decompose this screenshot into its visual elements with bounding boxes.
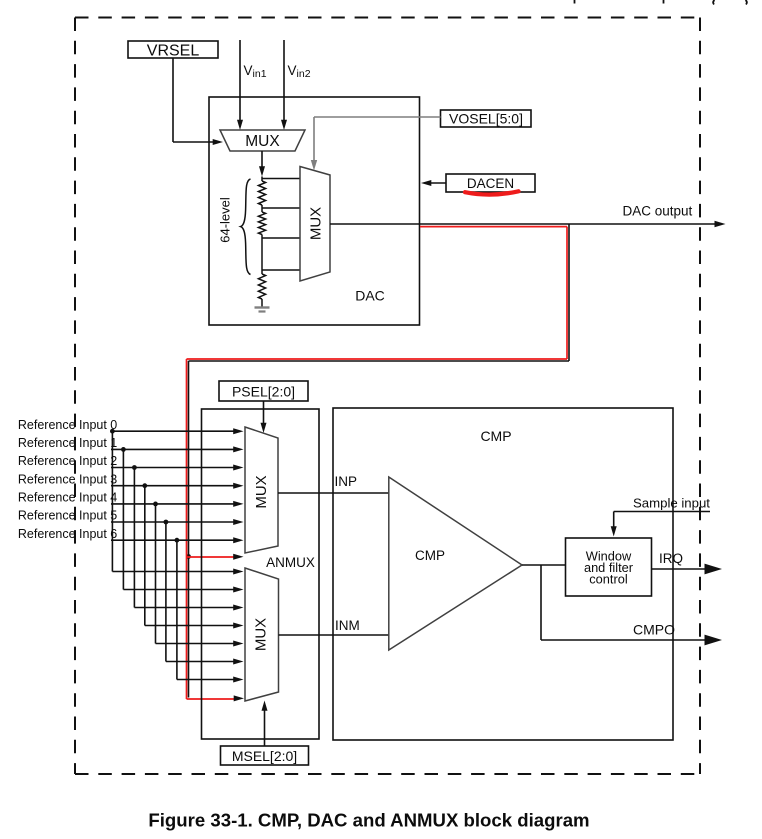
svg-text:MSEL[2:0]: MSEL[2:0]	[232, 748, 297, 764]
svg-text:CMP: CMP	[480, 428, 511, 444]
svg-text:Figure 33-1. CMP, DAC and ANMU: Figure 33-1. CMP, DAC and ANMUX block di…	[148, 810, 589, 831]
svg-text:Reference Input 4: Reference Input 4	[18, 491, 117, 505]
svg-text:VOSEL[5:0]: VOSEL[5:0]	[449, 111, 523, 127]
svg-text:DAC: DAC	[355, 288, 385, 304]
svg-text:DAC output: DAC output	[623, 204, 693, 219]
svg-text:INP: INP	[335, 474, 358, 489]
svg-text:Reference Input 0: Reference Input 0	[18, 418, 117, 432]
svg-text:MUX: MUX	[253, 475, 270, 508]
svg-text:Reference Input 2: Reference Input 2	[18, 454, 117, 468]
svg-text:Vin1: Vin1	[244, 63, 267, 80]
svg-text:Reference Input 1: Reference Input 1	[18, 436, 117, 450]
svg-text:DACEN: DACEN	[467, 176, 514, 191]
svg-text:CMPO: CMPO	[633, 622, 675, 638]
svg-text:Reference Input 3: Reference Input 3	[18, 472, 117, 486]
svg-text:64-level: 64-level	[218, 197, 233, 243]
svg-text:MUX: MUX	[245, 133, 280, 150]
svg-text:VRSEL: VRSEL	[147, 43, 200, 60]
svg-text:MUX: MUX	[253, 618, 270, 651]
svg-text:Sample input: Sample input	[633, 496, 710, 511]
svg-text:MUX: MUX	[308, 207, 325, 240]
svg-text:PSEL[2:0]: PSEL[2:0]	[232, 384, 295, 400]
svg-text:ANMUX: ANMUX	[266, 555, 315, 570]
svg-text:control: control	[589, 572, 627, 587]
svg-text:INM: INM	[335, 618, 360, 633]
svg-text:IRQ: IRQ	[659, 551, 683, 566]
svg-text:CMP: CMP	[415, 548, 445, 563]
svg-text:Reference Input 6: Reference Input 6	[18, 527, 117, 541]
svg-text:Vin2: Vin2	[288, 63, 311, 80]
svg-text:Reference Input 5: Reference Input 5	[18, 509, 117, 523]
